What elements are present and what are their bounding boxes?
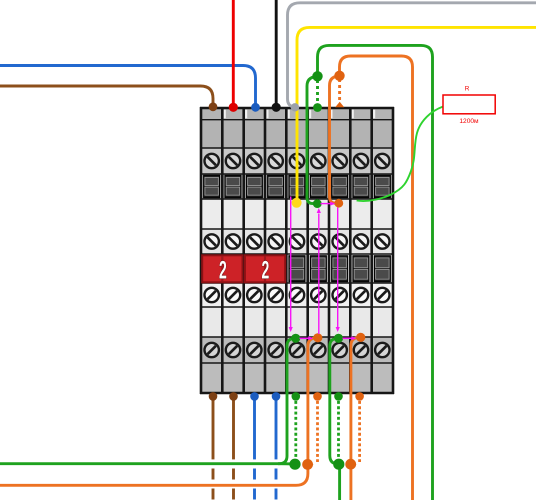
terminal 3 bottom dot blue xyxy=(250,392,259,401)
terminal 1 top dot brown xyxy=(209,102,218,111)
terminal 6 top dot green xyxy=(313,103,322,112)
terminal 6 bottom dot orange xyxy=(313,392,322,401)
node dot orange (interior, terminal 7) xyxy=(334,199,343,208)
junction dot orange with pointer xyxy=(302,459,313,470)
node dot green lower (terminal 5 row4) xyxy=(291,334,300,343)
wire yellow (top right into terminal 5, ends at yellow dot) xyxy=(297,27,536,200)
terminal block body xyxy=(201,108,393,393)
wire blue terminal 4 bottom (solid then dashed) xyxy=(275,398,278,500)
wire green bus stub to junction xyxy=(278,462,296,465)
terminal 4 top dot black xyxy=(272,103,281,112)
caps row highlights xyxy=(224,110,376,119)
node dot orange lower (terminal 8 row4) xyxy=(356,333,365,342)
arrow magenta down (terminal 7) xyxy=(336,208,340,333)
red jumper block terminals 1-2 xyxy=(202,255,242,284)
red jumper block terminals 3-4 xyxy=(245,255,285,284)
wire blue terminal 3 bottom (solid then dashed) xyxy=(253,398,256,500)
arrow magenta down (terminal 5) xyxy=(289,197,293,333)
wire green lower-left net: node to bottom bus xyxy=(0,338,294,463)
terminal 2 top dot red xyxy=(229,103,238,112)
junction dot green above terminal 6 xyxy=(312,71,322,81)
connector slots row 2 (terminals 5-9) xyxy=(289,256,391,282)
terminal 3 top dot blue xyxy=(251,103,260,112)
junction dot orange above terminal 7 xyxy=(334,71,344,81)
svg-text:1200м: 1200м xyxy=(459,118,479,125)
wire green net: junction above terminal 6 to right-side drop xyxy=(318,45,433,500)
terminal 2 bottom dot brown xyxy=(229,392,238,401)
junction dot green right on bus xyxy=(333,459,344,470)
node dot orange lower (terminal 6 row4) xyxy=(313,333,322,342)
terminal 4 bottom dot blue xyxy=(272,392,281,401)
terminal block row separators xyxy=(200,108,394,393)
wire orange net: junction above terminal 7 to right-side drop xyxy=(340,56,413,500)
node dot yellow (wire end in terminal 5) xyxy=(292,198,302,208)
wire green into block interior to arrow node xyxy=(307,77,316,204)
arrow magenta right (node green to node orange, top) xyxy=(321,202,336,206)
wire blue feed (left, terminal 3) xyxy=(0,66,256,107)
junction dot green on bus xyxy=(289,459,300,470)
wire green lead to resistor R xyxy=(357,107,443,201)
screw row 3 xyxy=(205,288,390,302)
wire black feed (top, terminal 4) xyxy=(275,0,278,106)
wire brown terminal 1 bottom (solid then dashed) xyxy=(212,398,215,500)
arrow magenta right (lower right pair) xyxy=(343,336,357,340)
wire green dashed stub to terminal 6 clamp xyxy=(316,80,319,105)
wire orange lower-left net: node through junction to bottom bus xyxy=(0,338,316,486)
svg-text:2: 2 xyxy=(219,258,227,285)
terminal 8 bottom dot orange xyxy=(355,392,364,401)
screw row 4 xyxy=(205,343,390,357)
connector slots row 1 xyxy=(204,175,391,198)
svg-text:2: 2 xyxy=(262,258,270,285)
terminal 5 bottom dot green xyxy=(292,392,301,401)
arrow magenta right (lower left pair) xyxy=(300,336,314,340)
wire orange lower-right net: node to bottom edge xyxy=(351,337,359,500)
wire orange dashed terminal 8 bottom xyxy=(358,401,361,462)
wire green drop to bottom edge xyxy=(338,464,340,500)
wire green lower-right net: node to bottom edge xyxy=(330,338,338,464)
wire red feed (top, terminal 2) xyxy=(232,0,235,106)
wire brown terminal 2 bottom (solid then dashed) xyxy=(232,398,235,500)
terminal 1 bottom dot brown xyxy=(209,392,218,401)
junction dot orange right with pointer xyxy=(345,459,356,470)
screw row 2 xyxy=(205,234,390,248)
wire green dashed terminal 7 bottom xyxy=(337,401,340,458)
wire orange dashed terminal 6 bottom xyxy=(316,401,319,462)
wire green dashed terminal 5 bottom xyxy=(294,401,297,458)
svg-text:R: R xyxy=(465,86,470,93)
node dot green (interior, terminal 6) xyxy=(313,199,322,208)
wire brown feed (left, terminal 1) xyxy=(0,86,213,106)
resistor R box xyxy=(443,95,495,114)
arrow magenta up (terminal 6) xyxy=(317,208,321,334)
terminal 5 top dot gray xyxy=(291,103,299,111)
wire gray (terminal 5 to top right) xyxy=(288,3,536,107)
terminal 7 bottom dot green xyxy=(334,392,343,401)
wire orange into block interior to arrow node xyxy=(330,76,339,203)
terminal column separators xyxy=(201,107,393,394)
node dot green lower (terminal 7 row4) xyxy=(334,334,343,343)
screw row 1 xyxy=(205,154,390,168)
wire orange dashed stub to terminal 7 clamp xyxy=(338,79,341,101)
terminal 7 top triangle orange xyxy=(335,102,344,108)
